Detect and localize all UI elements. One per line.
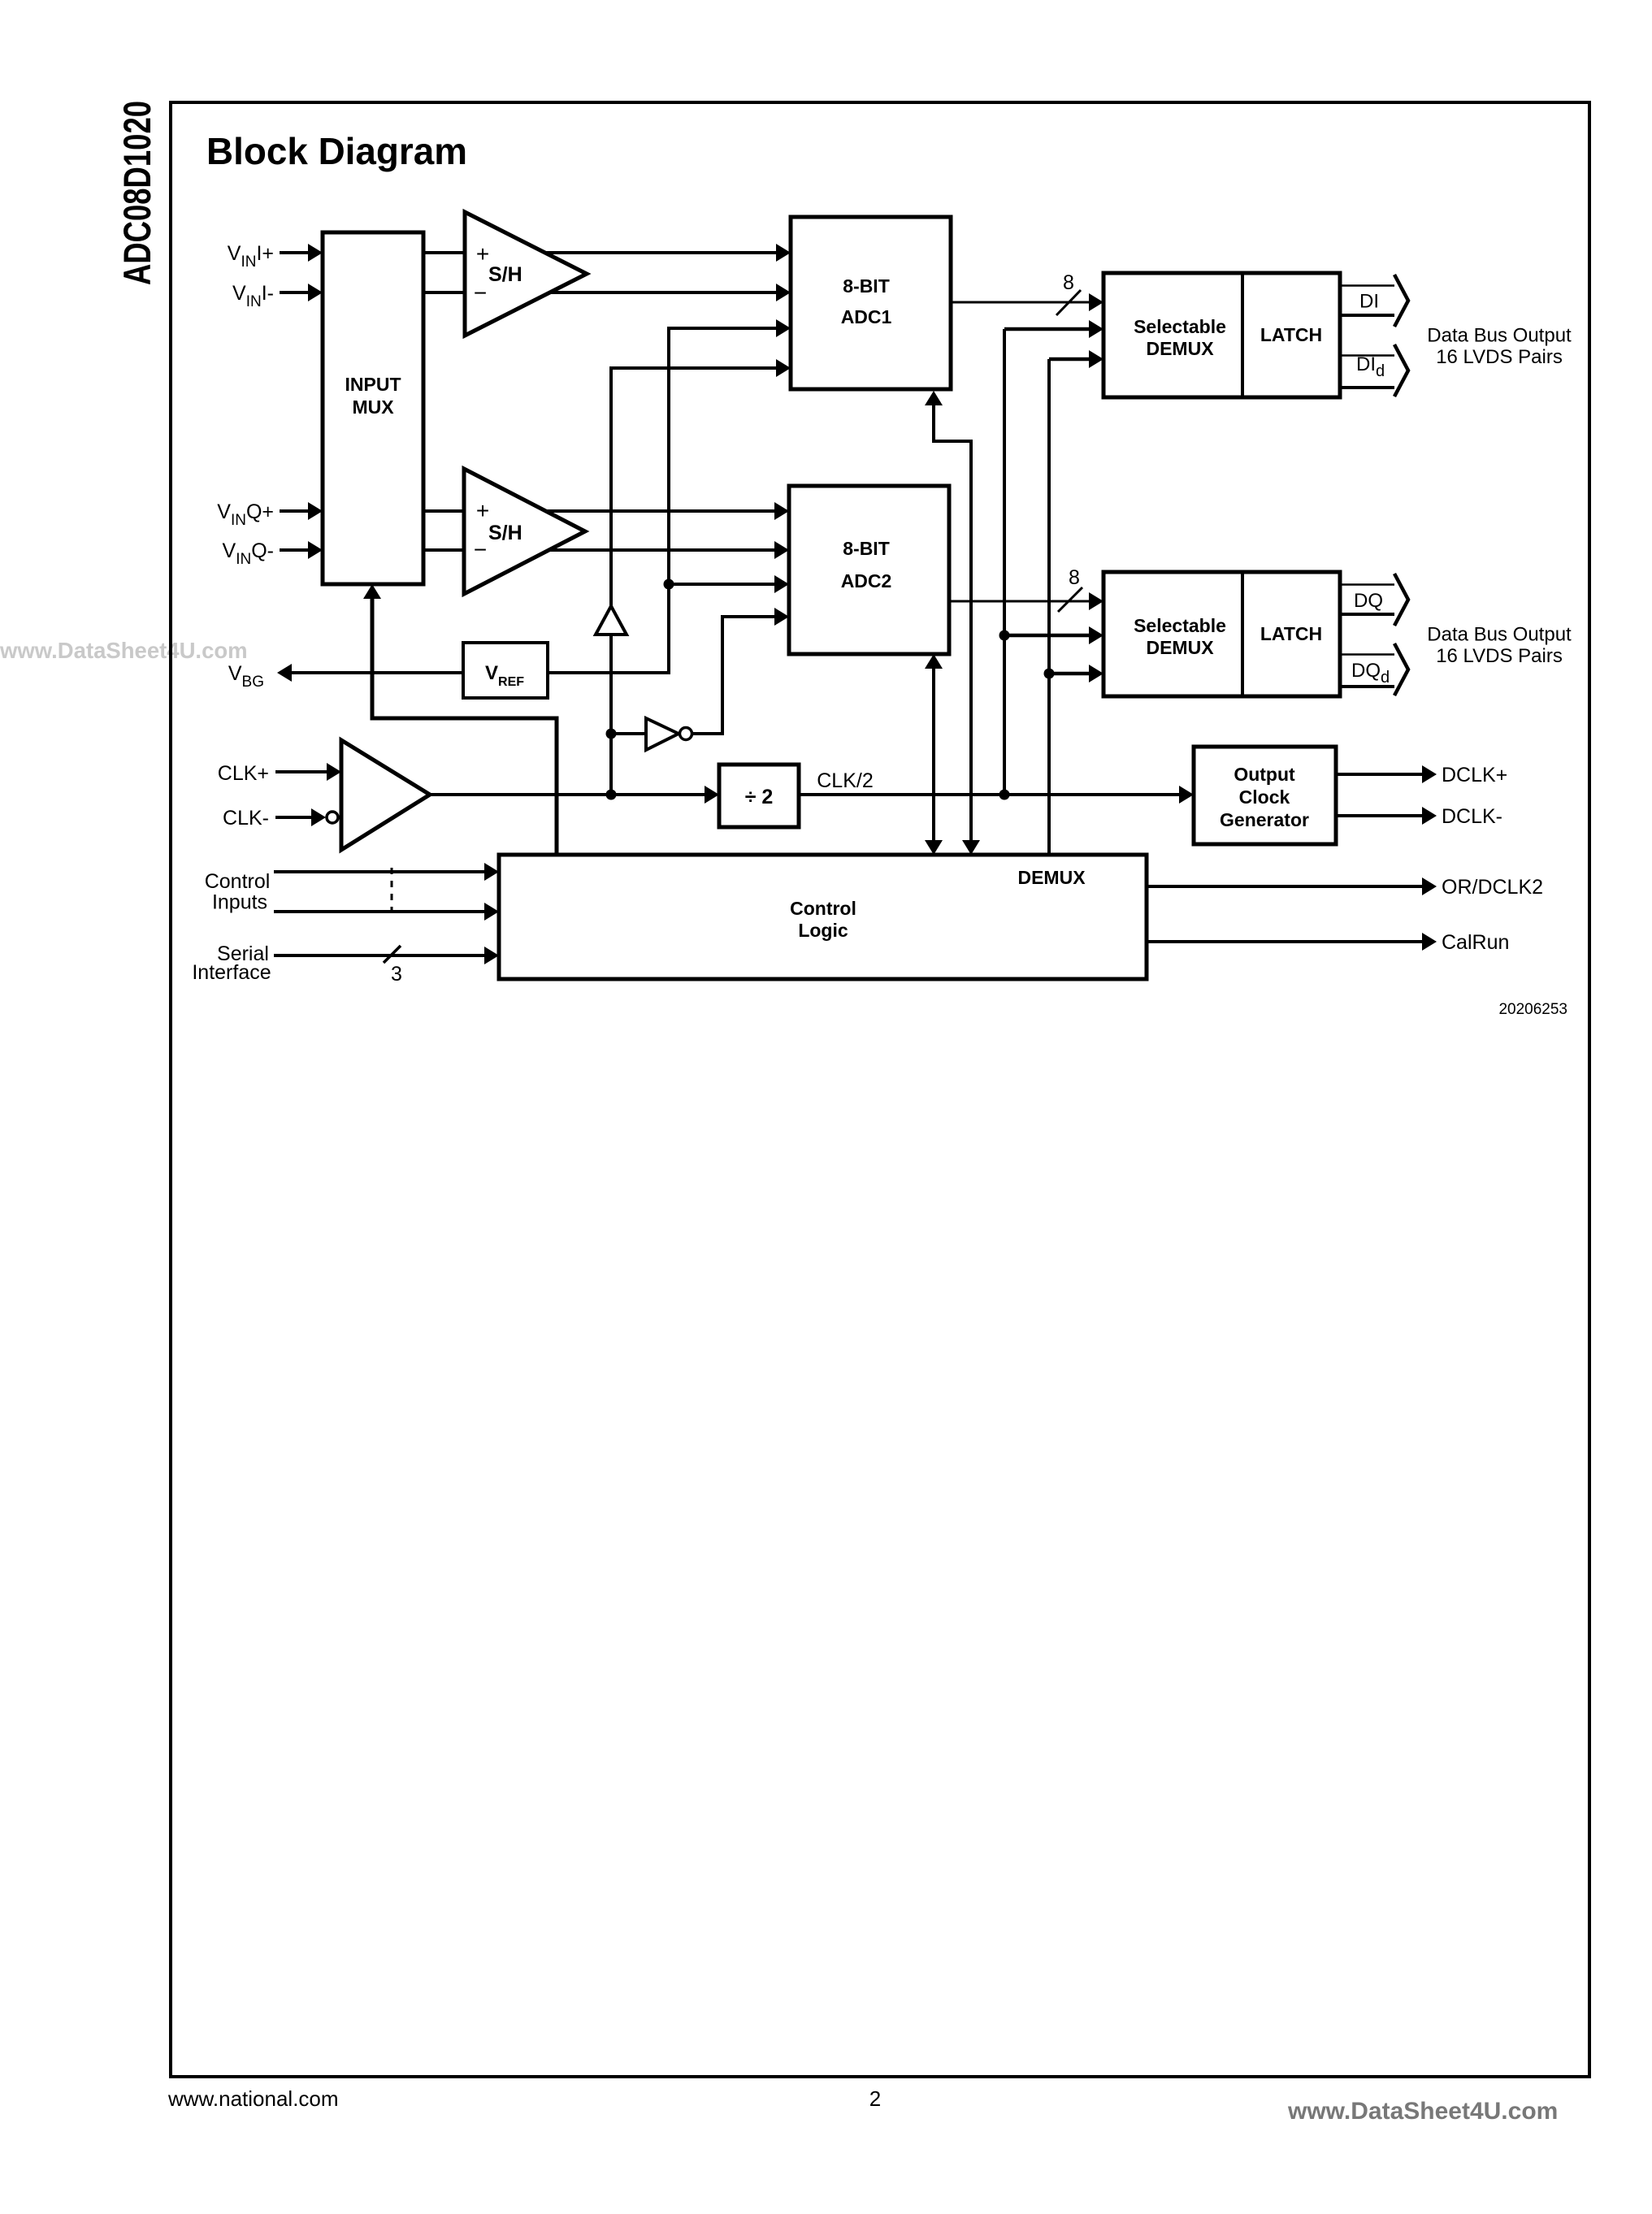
wire sh2 out + to adc2	[546, 502, 789, 520]
wire sh1 out + to adc1	[545, 244, 791, 262]
svg-text:CLK+: CLK+	[218, 762, 269, 785]
bus banner DId	[1340, 344, 1408, 396]
wire adc2 8-bit bus to demux2	[949, 566, 1104, 612]
svg-text:8: 8	[1063, 271, 1074, 294]
selectable demux latch 1	[1104, 273, 1340, 397]
svg-text:Generator: Generator	[1220, 809, 1309, 830]
node OR/DCLK2 output	[1147, 876, 1543, 899]
control logic block	[499, 855, 1147, 979]
svg-text:DQ: DQ	[1354, 590, 1383, 612]
wire clk/2 vertical to demux	[1003, 329, 1006, 795]
clock buffer U2	[327, 740, 430, 850]
adc1 block	[791, 217, 951, 389]
svg-text:DEMUX: DEMUX	[1146, 637, 1214, 658]
svg-text:DEMUX: DEMUX	[1017, 867, 1086, 888]
svg-text:CLK/2: CLK/2	[817, 769, 873, 792]
wire control logic to adc2	[925, 654, 943, 855]
svg-text:ADC2: ADC2	[841, 570, 892, 591]
svg-text:INPUT: INPUT	[345, 374, 401, 395]
svg-text:S/H: S/H	[488, 263, 522, 286]
svg-text:Control: Control	[205, 870, 271, 893]
wire adc1 8-bit bus to demux1	[951, 271, 1104, 315]
svg-text:LATCH: LATCH	[1260, 324, 1322, 345]
svg-text:16 LVDS Pairs: 16 LVDS Pairs	[1436, 346, 1563, 368]
bus banner DQ	[1340, 574, 1408, 626]
svg-text:Logic: Logic	[798, 920, 848, 941]
op-amp S/H 1	[465, 212, 587, 336]
wire mux to sh1 -	[423, 291, 465, 294]
node CLK+ input	[218, 762, 341, 785]
vref block	[463, 643, 548, 698]
svg-text:Block Diagram: Block Diagram	[206, 130, 467, 172]
svg-text:OR/DCLK2: OR/DCLK2	[1442, 876, 1543, 899]
wire mux to sh2 -	[423, 548, 464, 552]
svg-text:Inputs: Inputs	[212, 891, 267, 914]
wire mux to sh2 +	[423, 509, 464, 513]
node junction inverter tap	[606, 729, 647, 739]
svg-text:Clock: Clock	[1239, 786, 1290, 808]
node CLK- input	[223, 807, 326, 830]
adc2 block	[789, 486, 949, 654]
svg-text:LATCH: LATCH	[1260, 623, 1322, 644]
wire inverter out to adc2 input 4	[692, 608, 789, 734]
svg-text:−: −	[474, 280, 487, 305]
output clock generator block	[1194, 747, 1336, 844]
input mux U1	[323, 232, 423, 584]
svg-text:÷ 2: ÷ 2	[745, 786, 774, 808]
node VinI- input	[232, 282, 323, 310]
wire CLK/2 to output clock generator	[799, 769, 1194, 804]
inverter U3	[646, 718, 692, 750]
svg-text:8-BIT: 8-BIT	[843, 538, 890, 559]
svg-text:ADC1: ADC1	[841, 306, 892, 327]
svg-text:DCLK-: DCLK-	[1442, 805, 1502, 828]
svg-text:16 LVDS Pairs: 16 LVDS Pairs	[1436, 645, 1563, 667]
svg-text:+: +	[476, 498, 489, 523]
wire demux1 input 2	[1004, 320, 1104, 338]
svg-text:www.DataSheet4U.com: www.DataSheet4U.com	[1287, 2098, 1558, 2125]
wire dashed between control inputs	[391, 868, 393, 915]
svg-text:S/H: S/H	[488, 522, 522, 544]
svg-text:Selectable: Selectable	[1134, 316, 1226, 337]
node serial interface input	[192, 942, 499, 986]
svg-text:Data Bus Output: Data Bus Output	[1427, 325, 1572, 347]
wire mux to sh1 +	[423, 251, 465, 254]
wire clock vertical to adc1 input 4	[611, 359, 791, 795]
svg-text:www.DataSheet4U.com: www.DataSheet4U.com	[0, 638, 248, 663]
svg-text:www.national.com: www.national.com	[167, 2086, 339, 2111]
page frame	[171, 102, 1589, 2077]
node DCLK- output	[1336, 805, 1502, 828]
svg-text:CLK-: CLK-	[223, 807, 269, 830]
wire clock buffer out to div2	[430, 786, 719, 804]
node DCLK+ output	[1336, 764, 1507, 786]
svg-text:Selectable: Selectable	[1134, 615, 1226, 636]
svg-text:Interface: Interface	[192, 961, 271, 984]
svg-text:MUX: MUX	[352, 396, 394, 418]
node VBG output	[228, 662, 463, 691]
node junction vref line to adc2 input 3	[664, 575, 790, 593]
wire demux1 input 3	[1049, 350, 1104, 368]
svg-text:8-BIT: 8-BIT	[843, 275, 890, 297]
label data bus output 1	[1427, 325, 1572, 369]
node VinQ+ input	[217, 500, 323, 529]
svg-text:−: −	[474, 537, 487, 562]
node junction clk/2 horizontal	[999, 790, 1010, 800]
bus banner DQd	[1340, 643, 1408, 695]
svg-text:DI: DI	[1359, 291, 1379, 313]
wire mux control from control logic	[363, 584, 557, 855]
svg-text:8: 8	[1069, 566, 1080, 589]
node junction clk/2 to demux2 input 2	[999, 626, 1104, 644]
svg-text:+: +	[476, 241, 489, 266]
svg-text:CalRun: CalRun	[1442, 931, 1509, 954]
open arrowhead clock up	[596, 606, 627, 635]
bus banner DI	[1340, 275, 1408, 327]
node junction demux select to demux2 input 3	[1044, 665, 1104, 682]
node control input 2	[212, 891, 499, 921]
svg-text:DCLK+: DCLK+	[1442, 764, 1507, 786]
node VinI+ input	[228, 242, 323, 271]
svg-text:2: 2	[869, 2086, 881, 2111]
svg-text:Control: Control	[790, 898, 856, 919]
node control input 1	[205, 863, 499, 893]
wire sh1 out - to adc1	[550, 284, 791, 301]
svg-text:Data Bus Output: Data Bus Output	[1427, 624, 1572, 646]
svg-text:ADC08D1020: ADC08D1020	[115, 101, 158, 285]
wire sh2 out - to adc2	[549, 541, 789, 559]
wire vref to adc1 input 3	[548, 319, 791, 673]
selectable demux latch 2	[1104, 572, 1340, 696]
divide by 2 block	[719, 765, 799, 827]
wire control logic to adc1	[925, 391, 980, 855]
svg-text:3: 3	[391, 963, 402, 986]
node VinQ- input	[223, 539, 323, 568]
svg-text:20206253: 20206253	[1498, 1001, 1567, 1018]
op-amp S/H 2	[464, 469, 585, 594]
svg-text:Output: Output	[1234, 764, 1295, 785]
node junction clock to vertical	[606, 790, 617, 800]
label data bus output 2	[1427, 624, 1572, 668]
wire demux select from control logic	[1047, 359, 1051, 855]
node CalRun output	[1147, 931, 1509, 954]
svg-text:DEMUX: DEMUX	[1146, 338, 1214, 359]
